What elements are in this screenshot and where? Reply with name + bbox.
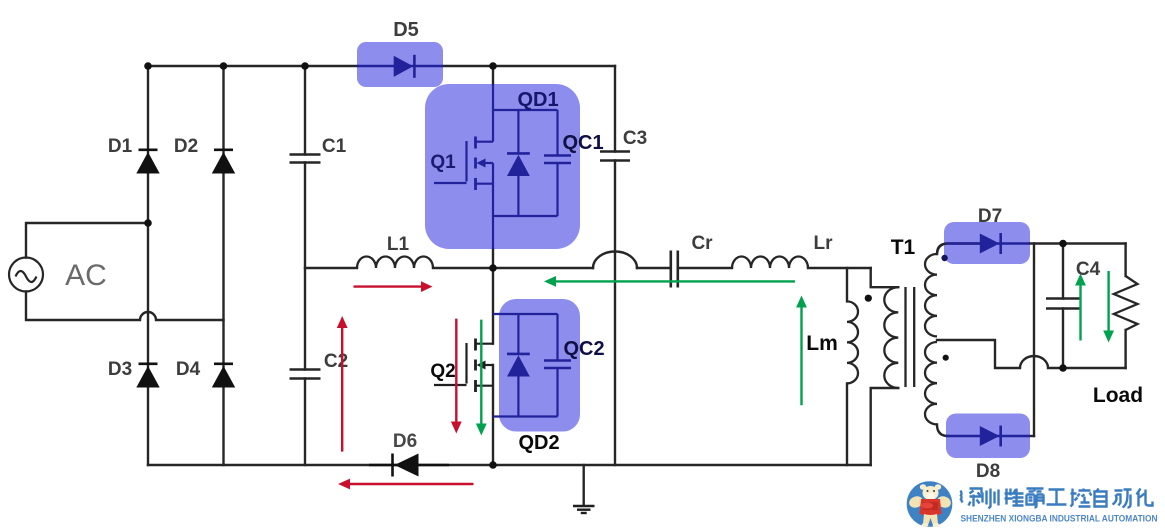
wire load right rail (1124, 244, 1126, 369)
svg-text:Lm: Lm (806, 332, 838, 355)
capacitor C4 (1046, 299, 1080, 309)
capacitor C2 (290, 370, 321, 379)
capacitor C1 (290, 155, 321, 163)
diode D6 (369, 454, 449, 477)
highlight box D8 (946, 414, 1030, 459)
diode D1 (136, 150, 159, 174)
svg-text:QD1: QD1 (517, 89, 558, 111)
svg-text:AC: AC (65, 259, 107, 292)
svg-text:QC1: QC1 (562, 132, 603, 154)
svg-text:D5: D5 (393, 19, 419, 41)
capacitor Cr (671, 251, 678, 288)
inductor L1 (357, 257, 433, 269)
wire hop over C3 column (593, 252, 637, 269)
polarity dot secondary top (941, 255, 947, 261)
wire Q column upper (492, 66, 494, 84)
svg-text:Lr: Lr (814, 233, 834, 254)
wire C1/C2 column (304, 66, 306, 465)
svg-text:T1: T1 (891, 236, 916, 259)
diode D2 (212, 150, 235, 174)
svg-text:Load: Load (1093, 384, 1143, 407)
svg-text:C1: C1 (322, 136, 347, 157)
svg-text:QC2: QC2 (563, 338, 604, 360)
wire left column (D1/D3) (147, 66, 149, 465)
capacitor C3 (600, 152, 630, 161)
capacitor QC2 (544, 314, 571, 417)
svg-text:C3: C3 (623, 128, 647, 149)
current arrow green Load down (1103, 271, 1114, 343)
logo bear mascot (908, 484, 953, 527)
wire AC top lead (26, 223, 148, 258)
current arrow green C4 up (1075, 274, 1086, 341)
junction node top rail C1 (301, 62, 309, 70)
junction node AC to bridge (144, 219, 152, 227)
transistor Q2 body arrow (477, 361, 486, 370)
inductor Lr (732, 257, 808, 269)
wire center tap with hop (937, 340, 1126, 368)
wire Lr to transformer primary (871, 268, 899, 287)
wire top rail right segment (443, 65, 615, 67)
junction node output top C4 (1059, 240, 1067, 248)
wire D7-D8 cathode connector (1033, 244, 1035, 437)
wire second column (D2/D4) (222, 66, 224, 465)
svg-text:D7: D7 (978, 206, 1002, 227)
wire Q column bottom (492, 365, 494, 465)
svg-text:C2: C2 (324, 351, 348, 372)
transistor Q1 (MOSFET) (434, 84, 493, 249)
current arrow green Lm up (796, 296, 807, 406)
current arrow red L1 right (354, 281, 433, 292)
transformer T1 core (906, 287, 915, 387)
wire bottom rail (148, 464, 871, 466)
transformer T1 primary winding (884, 287, 898, 388)
wire C4 branch (1062, 244, 1064, 369)
current arrow green Q2 down (476, 320, 487, 436)
wire ground stem (583, 465, 585, 505)
junction node top rail Q column (489, 62, 497, 70)
transistor Q2 (MOSFET) (434, 339, 493, 393)
diode D8 (946, 426, 1030, 447)
wire secondary top lead (937, 244, 979, 255)
transistor Q1 body arrow (477, 159, 486, 168)
diode D4 (212, 364, 235, 388)
svg-text:D2: D2 (174, 136, 198, 157)
svg-text:L1: L1 (387, 234, 410, 255)
highlight box D5 (357, 42, 443, 87)
svg-text:D6: D6 (393, 431, 417, 452)
wire D8 output (1030, 435, 1034, 437)
AC source (9, 258, 43, 292)
svg-text:D1: D1 (108, 136, 133, 157)
junction node bottom rail Q column (489, 461, 497, 469)
current arrow green middle left (544, 276, 795, 287)
resistor Load (1114, 276, 1138, 330)
svg-text:QD2: QD2 (518, 432, 559, 454)
wire Lm top lead (846, 268, 848, 301)
junction node half-bridge midpoint (489, 264, 497, 272)
wire AC bottom lead with hop over left column (26, 292, 224, 321)
current arrow red C2 up (337, 316, 348, 452)
transformer T1 secondary upper winding (925, 254, 937, 336)
inductor Lm (847, 301, 858, 383)
svg-text:D4: D4 (176, 359, 201, 380)
wire C3 column (614, 66, 616, 465)
ground (573, 506, 595, 513)
highlight box Q1/QD1/QC1 (425, 84, 580, 249)
transformer T1 secondary lower winding (925, 342, 937, 424)
wire secondary bottom lead (937, 424, 948, 436)
svg-text:D8: D8 (976, 461, 1000, 482)
body diode QD2 (493, 314, 558, 417)
svg-text:Cr: Cr (691, 233, 713, 254)
capacitor QC1 (544, 110, 571, 216)
diode D7 (946, 233, 1030, 254)
current arrow red bottom left (338, 479, 474, 490)
logo mark circle (907, 481, 953, 527)
junction node top rail D2 (220, 62, 228, 70)
current arrow red Q2 down (451, 319, 462, 434)
svg-text:SHENZHEN XIONGBA INDUSTRIAL AU: SHENZHEN XIONGBA INDUSTRIAL AUTOMATION (961, 514, 1158, 524)
logo Chinese company name (stylized strokes) (961, 489, 1153, 509)
wire primary bottom lead (871, 388, 899, 465)
svg-text:D3: D3 (108, 359, 132, 380)
polarity dot secondary bottom (943, 355, 949, 361)
wire middle rail (305, 267, 871, 269)
highlight box QD2/QC2 (499, 299, 580, 432)
body diode QD1 (493, 110, 558, 216)
wire Q column lower (black part) (492, 249, 494, 344)
svg-text:Q2: Q2 (430, 361, 455, 382)
diode D3 (136, 364, 159, 388)
junction node top rail left (144, 62, 152, 70)
diode D5 (357, 55, 443, 78)
polarity dot primary (865, 295, 872, 302)
wire top rail left segment (148, 65, 357, 67)
wire Lm bottom lead (846, 383, 848, 465)
junction node output bottom C4 (1059, 364, 1067, 372)
highlight box D7 (944, 222, 1030, 264)
wire D7 output to load rail (1030, 242, 1126, 244)
svg-text:Q1: Q1 (430, 152, 456, 173)
